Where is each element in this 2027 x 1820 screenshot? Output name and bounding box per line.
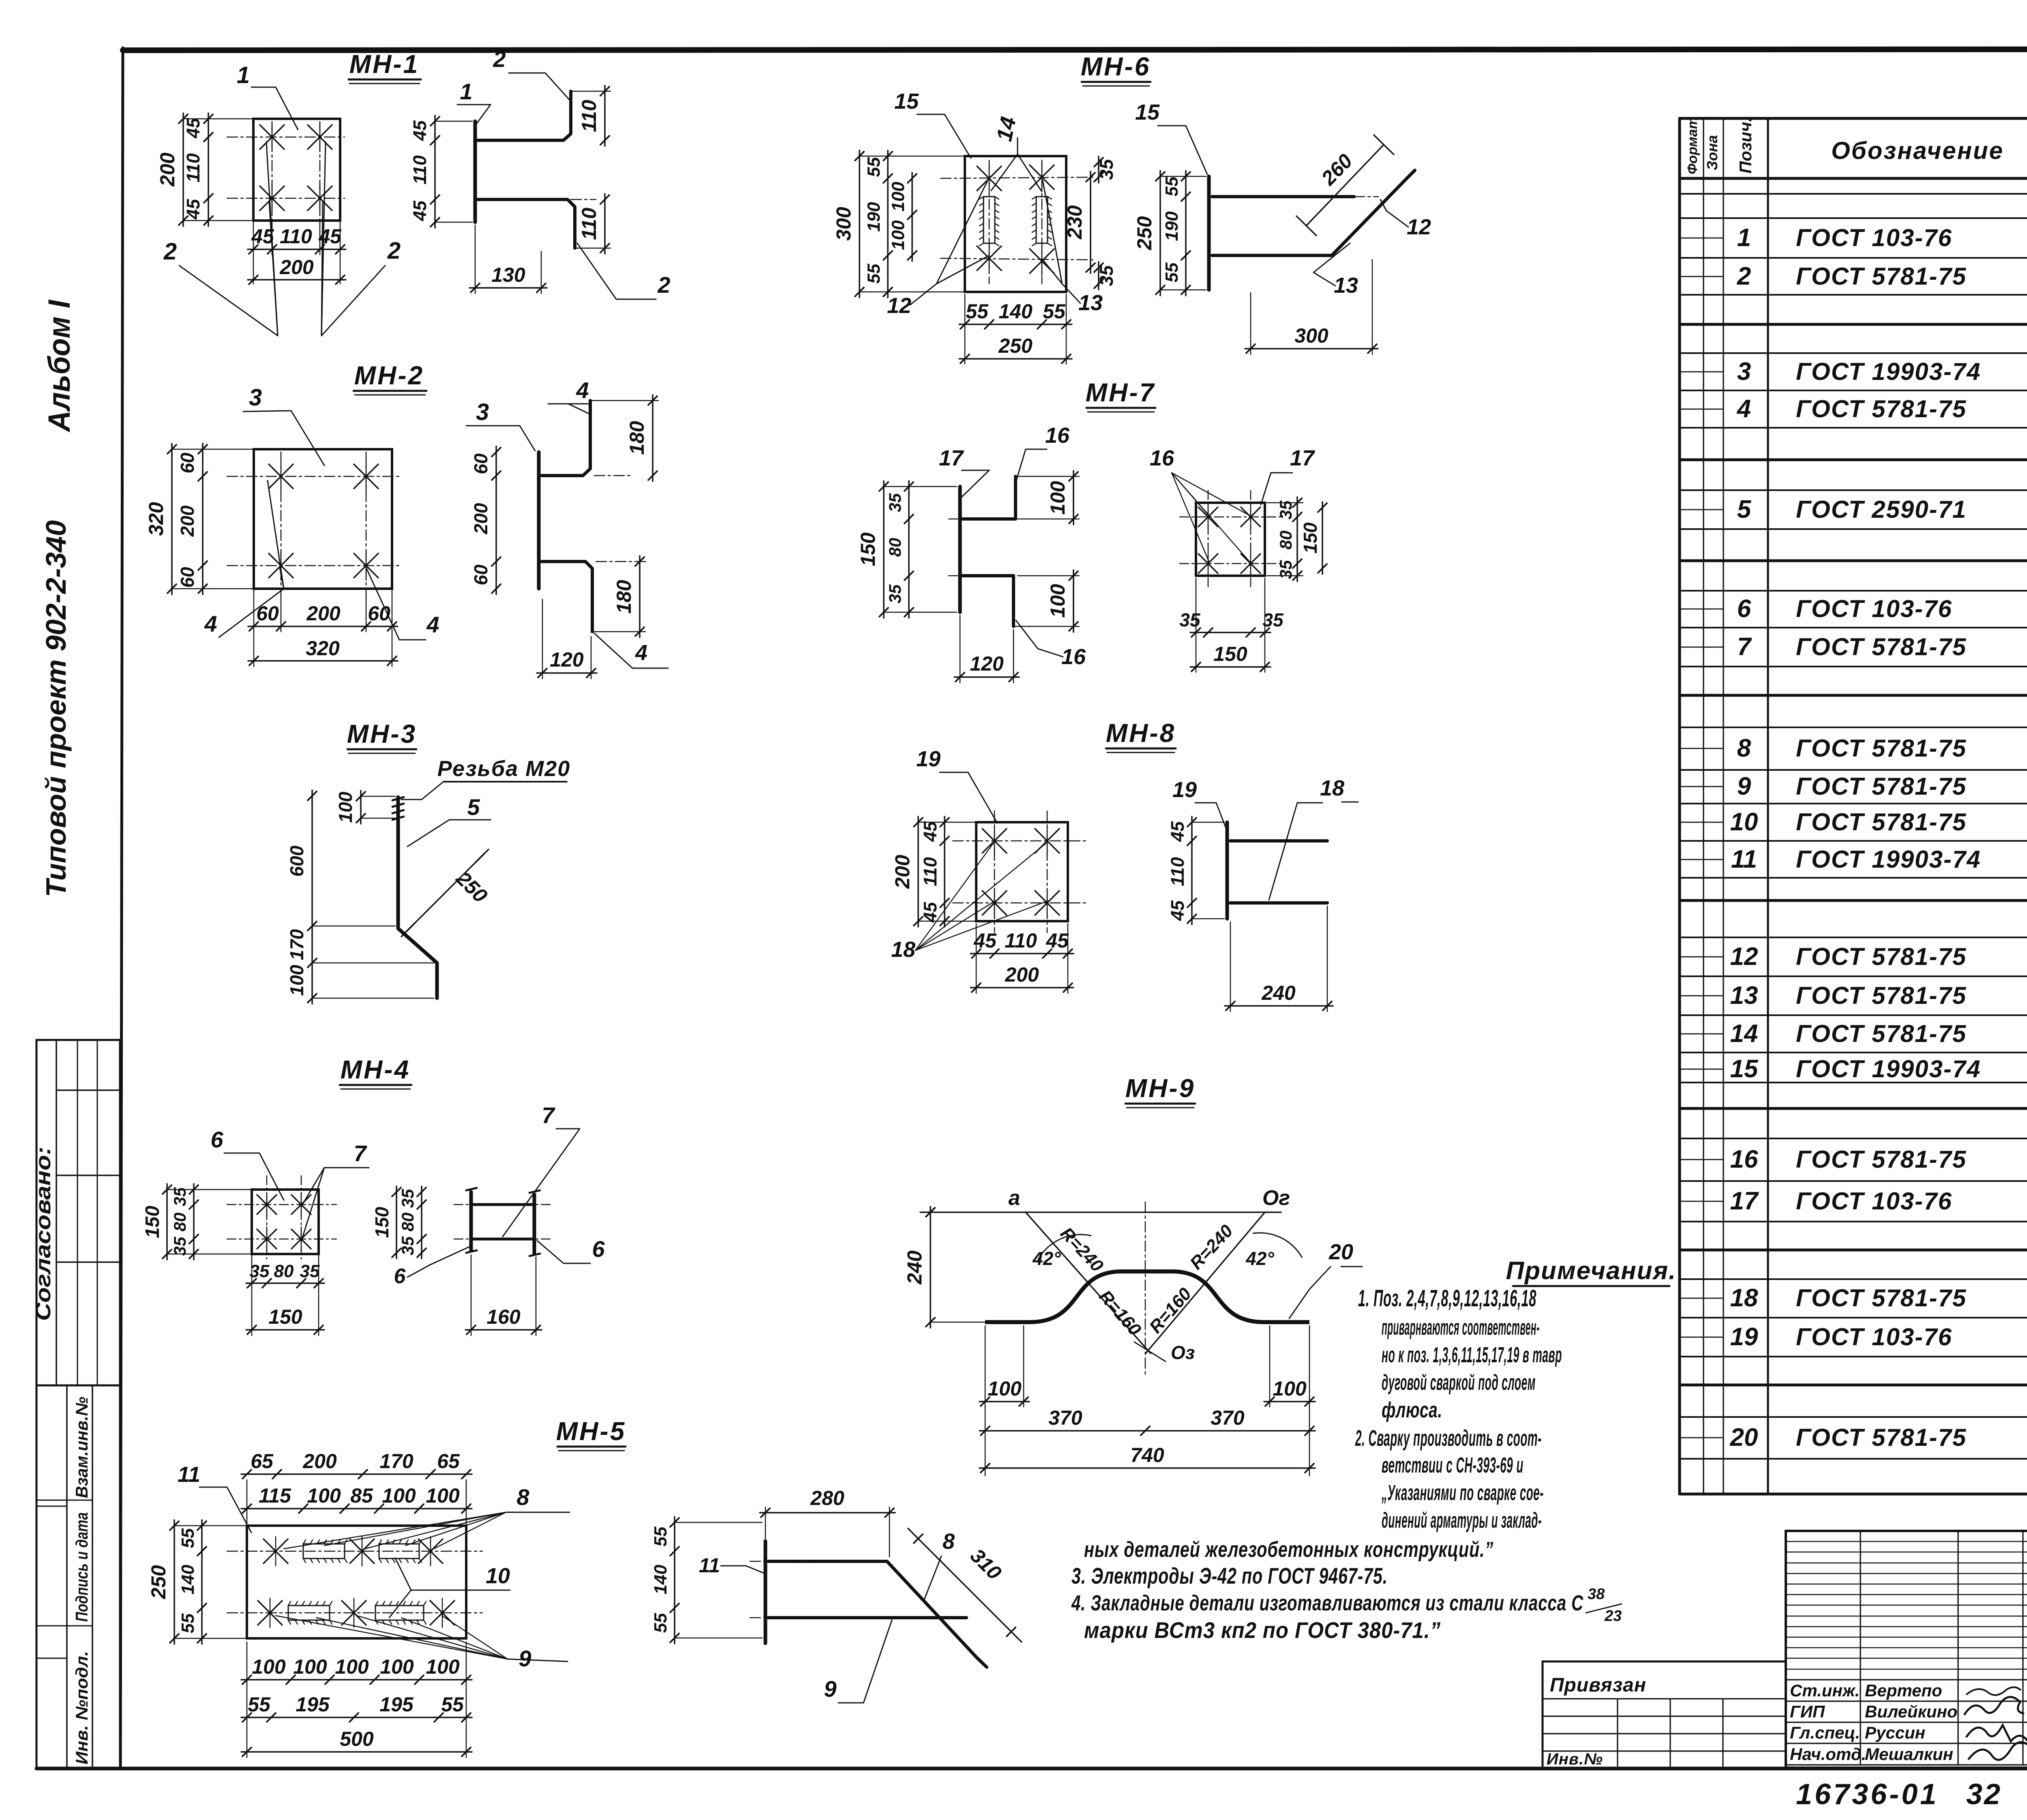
- svg-text:240: 240: [1261, 982, 1296, 1004]
- svg-text:ГОСТ 19903-74: ГОСТ 19903-74: [1796, 846, 1981, 873]
- МН-2 side view plate poz.3 and anchors poz.4: [539, 401, 649, 632]
- svg-text:180: 180: [626, 421, 648, 455]
- frame top border (thick): [123, 49, 2027, 50]
- svg-text:100: 100: [888, 182, 908, 212]
- svg-text:45: 45: [409, 200, 430, 221]
- svg-text:195: 195: [379, 1693, 414, 1716]
- svg-text:ГОСТ 5781-75: ГОСТ 5781-75: [1796, 1284, 1967, 1312]
- svg-text:6: 6: [210, 1127, 223, 1152]
- svg-text:Нач.отд.: Нач.отд.: [1790, 1745, 1866, 1764]
- svg-text:Руссин: Руссин: [1865, 1723, 1925, 1742]
- svg-text:150: 150: [1300, 522, 1321, 553]
- МН-9 angle arcs 42deg: [1032, 1233, 1302, 1269]
- МН-6 side leader poz.15: [1135, 100, 1207, 174]
- svg-text:35: 35: [170, 1237, 189, 1256]
- svg-text:130: 130: [491, 264, 525, 286]
- svg-text:100: 100: [307, 1484, 341, 1507]
- svg-text:ГОСТ 5781-75: ГОСТ 5781-75: [1796, 395, 1967, 422]
- svg-text:11: 11: [1731, 845, 1757, 873]
- МН-9 dims 100: [979, 1326, 1315, 1476]
- svg-text:Позич.: Позич.: [1736, 117, 1755, 174]
- МН-5 leader poz.11: [178, 1462, 251, 1533]
- МН-5 plan top dimension chains: [241, 1450, 472, 1526]
- svg-text:15: 15: [894, 89, 919, 114]
- МН-6 side view: plate poz.15, rod poz.12, bent rod poz.13: [1209, 170, 1415, 290]
- МН-1 side left dimensions: [409, 116, 472, 228]
- table section МН-4: [1680, 565, 2027, 695]
- svg-text:Обозначение: Обозначение: [1831, 137, 2004, 164]
- svg-text:Гл.спец.: Гл.спец.: [1790, 1723, 1860, 1742]
- МН-6 side leader poz.13: [1313, 243, 1358, 298]
- table section МН-9: [1680, 1389, 2027, 1491]
- svg-text:60: 60: [470, 453, 491, 474]
- svg-text:110: 110: [183, 153, 204, 182]
- svg-text:20: 20: [1730, 1423, 1758, 1451]
- svg-text:4: 4: [1736, 395, 1751, 423]
- МН-8 leader poz.18 fan: [891, 843, 1048, 962]
- title block: Привязан box: [1543, 1661, 1786, 1769]
- svg-text:2. Сварку производить в соот-: 2. Сварку производить в соот-: [1355, 1425, 1542, 1451]
- svg-text:110: 110: [578, 100, 600, 132]
- svg-text:1: 1: [1737, 224, 1751, 252]
- svg-text:9: 9: [519, 1646, 531, 1671]
- svg-text:55: 55: [1162, 176, 1182, 196]
- svg-text:ГОСТ 103-76: ГОСТ 103-76: [1796, 595, 1952, 622]
- МН-2 side left dims: [470, 446, 501, 594]
- svg-text:55: 55: [178, 1528, 198, 1548]
- МН-8 title: [1106, 718, 1176, 752]
- svg-text:55: 55: [966, 300, 989, 323]
- МН-8 side view: plate poz.19, straight rods poz.18: [1227, 822, 1327, 919]
- svg-text:Мешалкин: Мешалкин: [1865, 1745, 1953, 1764]
- МН-4 plan: plate poz.6 with anchors poz.7: [227, 1176, 336, 1259]
- svg-text:Ог: Ог: [1262, 1186, 1290, 1210]
- svg-text:12: 12: [1407, 215, 1431, 239]
- svg-text:4: 4: [426, 612, 439, 637]
- svg-text:Резьба М20: Резьба М20: [437, 757, 570, 781]
- МН-1 plan left dimensions 45/110/45, 200: [156, 113, 253, 226]
- svg-text:МН-2: МН-2: [354, 361, 424, 390]
- МН-6 side left dims: [1133, 171, 1206, 296]
- svg-text:МН-3: МН-3: [347, 719, 417, 748]
- svg-text:110: 110: [578, 208, 600, 240]
- svg-text:80: 80: [885, 538, 904, 557]
- МН-1 title: [349, 49, 421, 84]
- svg-text:Типовой проект 902-2-340: Типовой проект 902-2-340: [40, 520, 72, 897]
- svg-text:3: 3: [476, 399, 489, 425]
- svg-text:150: 150: [268, 1306, 302, 1328]
- svg-text:11: 11: [178, 1462, 200, 1487]
- МН-2 plan left dimensions: [145, 444, 254, 594]
- МН-2 plan bottom dimensions: [248, 589, 398, 667]
- table section МН-8: [1680, 1253, 2027, 1385]
- svg-text:200: 200: [177, 505, 198, 537]
- svg-text:марки ВСт3 кп2 по ГОСТ 380-71.: марки ВСт3 кп2 по ГОСТ 380-71.”: [1084, 1617, 1441, 1643]
- svg-text:ГОСТ 5781-75: ГОСТ 5781-75: [1796, 1020, 1967, 1047]
- МН-6 plan right dims: [1063, 156, 1117, 289]
- МН-1 side dim 110 top: [571, 86, 611, 146]
- svg-text:2: 2: [163, 238, 177, 265]
- table section МН-2: [1680, 327, 2027, 458]
- МН-6 plan left dims: [832, 150, 965, 298]
- МН-1 side dim 110 bottom: [575, 194, 611, 254]
- МН-6 side dim 300: [1245, 259, 1378, 354]
- svg-text:65: 65: [437, 1450, 460, 1473]
- МН-5 leader poz.8 with fan: [284, 1484, 570, 1549]
- МН-5 side view: plate poz.11, bent rod poz.8, straight rod poz.9: [750, 1541, 987, 1667]
- svg-text:8: 8: [943, 1529, 955, 1554]
- svg-text:6: 6: [1737, 595, 1751, 623]
- svg-text:ГОСТ 5781-75: ГОСТ 5781-75: [1796, 808, 1967, 836]
- svg-text:17: 17: [939, 446, 964, 470]
- svg-text:16: 16: [1045, 423, 1070, 448]
- МН-7 side leader poz.16 top: [1016, 423, 1070, 480]
- svg-text:ГОСТ 19903-74: ГОСТ 19903-74: [1796, 358, 1981, 385]
- svg-text:140: 140: [651, 1565, 671, 1595]
- svg-text:МН-9: МН-9: [1125, 1074, 1195, 1103]
- svg-text:„Указаниями по сварке сое-: „Указаниями по сварке сое-: [1381, 1481, 1544, 1505]
- МН-2 side leader 3: [466, 399, 535, 451]
- svg-text:Привязан: Привязан: [1550, 1674, 1646, 1696]
- svg-text:7: 7: [542, 1102, 555, 1128]
- МН-2 leader poz.3: [243, 384, 324, 465]
- МН-1 side dim 130: [469, 225, 547, 294]
- svg-text:Оз: Оз: [1171, 1342, 1195, 1363]
- svg-text:10: 10: [1730, 808, 1758, 836]
- МН-4 plan left dims: [142, 1184, 252, 1260]
- svg-text:1: 1: [460, 79, 472, 104]
- svg-text:55: 55: [248, 1693, 271, 1716]
- svg-text:5: 5: [467, 794, 480, 820]
- МН-7 side dim 100 bottom: [1013, 570, 1079, 632]
- svg-text:55: 55: [1043, 300, 1066, 323]
- svg-text:80: 80: [170, 1213, 189, 1232]
- svg-text:2: 2: [1737, 262, 1751, 290]
- МН-4 side leader poz.6 left: [394, 1247, 469, 1288]
- МН-9 centerline: [1145, 1202, 1146, 1374]
- svg-text:45: 45: [1046, 929, 1069, 952]
- svg-text:42°: 42°: [1245, 1248, 1274, 1269]
- svg-text:4: 4: [635, 641, 647, 665]
- svg-text:45: 45: [183, 118, 204, 139]
- svg-text:Вертепо: Вертепо: [1865, 1681, 1942, 1700]
- МН-4 side leader poz.7: [503, 1102, 580, 1237]
- svg-text:ГОСТ 19903-74: ГОСТ 19903-74: [1796, 1055, 1981, 1083]
- svg-text:ГИП: ГИП: [1790, 1702, 1825, 1721]
- МН-1 side leader poz.2 top: [493, 46, 571, 101]
- МН-4 leader poz.7: [301, 1140, 369, 1241]
- МН-9 curved rod poz.20: [985, 1271, 1309, 1322]
- МН-8 side leader poz.18: [1269, 776, 1358, 900]
- svg-text:100: 100: [335, 1655, 369, 1678]
- МН-2 side dim 180 bottom: [592, 556, 645, 637]
- МН-5 title: [556, 1417, 626, 1451]
- МН-4 side dim 160: [465, 1255, 542, 1336]
- title block: signature table: [1786, 1531, 2027, 1768]
- svg-text:МН-6: МН-6: [1081, 52, 1151, 81]
- svg-text:флюса.: флюса.: [1382, 1398, 1442, 1422]
- svg-text:100: 100: [382, 1484, 416, 1507]
- svg-text:190: 190: [864, 202, 884, 232]
- svg-text:1: 1: [237, 62, 250, 88]
- МН-1 plan: plate poz.1 with 4 anchors poz.2: [227, 119, 345, 227]
- svg-text:100: 100: [426, 1484, 460, 1507]
- МН-9 construction diagonals to Оз: [1026, 1212, 1265, 1363]
- inventory number 16736-01 32: [1796, 1778, 2002, 1811]
- МН-5 side dim 280: [760, 1487, 895, 1557]
- МН-9 dim 740: [979, 1444, 1315, 1473]
- svg-text:Инв.№: Инв.№: [1547, 1750, 1603, 1768]
- svg-text:6: 6: [394, 1265, 406, 1288]
- svg-text:300: 300: [1294, 324, 1328, 347]
- svg-text:240: 240: [903, 1250, 926, 1285]
- svg-text:8: 8: [516, 1484, 529, 1510]
- svg-text:150: 150: [1213, 643, 1247, 665]
- svg-text:11: 11: [699, 1554, 720, 1577]
- svg-text:55: 55: [1162, 262, 1182, 282]
- side stamp Инв/Подпись/Взам: [36, 1385, 120, 1769]
- svg-text:110: 110: [920, 857, 941, 886]
- table section МН-1: [1680, 192, 2027, 324]
- svg-text:МН-8: МН-8: [1106, 718, 1176, 748]
- svg-text:17: 17: [1730, 1187, 1759, 1215]
- МН-4 side leader poz.6 right: [537, 1236, 605, 1263]
- МН-8 side dim 240: [1225, 906, 1333, 1012]
- svg-text:18: 18: [1320, 776, 1344, 800]
- svg-text:150: 150: [371, 1207, 392, 1238]
- МН-2 side dim 120: [537, 599, 597, 679]
- rotated text Альбом I: [42, 299, 77, 433]
- svg-text:370: 370: [1211, 1406, 1245, 1429]
- svg-text:150: 150: [857, 532, 879, 566]
- svg-text:320: 320: [145, 502, 167, 536]
- svg-text:140: 140: [999, 300, 1033, 323]
- svg-text:45: 45: [183, 199, 204, 220]
- svg-text:ГОСТ 103-76: ГОСТ 103-76: [1796, 1188, 1952, 1215]
- svg-text:55: 55: [864, 264, 884, 283]
- svg-text:35: 35: [398, 1236, 417, 1255]
- svg-text:55: 55: [864, 157, 884, 177]
- svg-text:Подпись и дата: Подпись и дата: [72, 1512, 91, 1622]
- МН-5 plan: plate poz.11 with anchors poz.8/9 and welds poz.10: [227, 1526, 482, 1638]
- svg-text:Альбом I: Альбом I: [42, 299, 77, 433]
- svg-text:9: 9: [1737, 772, 1751, 800]
- svg-text:55: 55: [178, 1613, 198, 1633]
- svg-text:12: 12: [887, 294, 911, 318]
- МН-2 leader poz.4 left: [204, 480, 284, 637]
- МН-4 leader poz.6: [210, 1127, 284, 1200]
- svg-text:12: 12: [1730, 943, 1758, 971]
- МН-6 plan bottom dims: [959, 294, 1072, 364]
- МН-5 side leader poz.9: [824, 1620, 892, 1703]
- svg-text:1. Поз. 2,4,7,8,9,12,13,16,18: 1. Поз. 2,4,7,8,9,12,13,16,18: [1358, 1285, 1536, 1312]
- МН-1 leader poz.2 right: [321, 142, 401, 336]
- МН-7 plan: plate poz.17 with 4 anchors poz.16: [1180, 491, 1281, 588]
- svg-text:13: 13: [1334, 273, 1358, 298]
- svg-text:85: 85: [350, 1484, 373, 1507]
- svg-text:2: 2: [493, 46, 506, 72]
- svg-text:3: 3: [1737, 358, 1751, 386]
- МН-3 label Резьба М20 with leader: [401, 757, 570, 800]
- svg-text:110: 110: [280, 225, 312, 248]
- svg-text:динений арматуры и заклад-: динений арматуры и заклад-: [1382, 1508, 1542, 1533]
- svg-text:ГОСТ 5781-75: ГОСТ 5781-75: [1796, 943, 1967, 970]
- svg-text:35: 35: [885, 493, 904, 512]
- МН-6 leader poz.12: [887, 182, 989, 318]
- svg-text:35: 35: [250, 1261, 270, 1281]
- svg-text:35: 35: [398, 1189, 417, 1208]
- svg-text:23: 23: [1604, 1608, 1622, 1625]
- rotated text Типовой проект 902-2-340: [40, 520, 72, 897]
- svg-text:55: 55: [651, 1613, 671, 1633]
- svg-text:110: 110: [1167, 857, 1188, 886]
- svg-text:740: 740: [1130, 1444, 1164, 1466]
- МН-6 leader poz.15: [894, 89, 971, 158]
- svg-text:2: 2: [387, 238, 401, 264]
- svg-text:13: 13: [1078, 291, 1103, 315]
- МН-7 side dim 100 top: [1016, 471, 1079, 525]
- svg-text:60: 60: [177, 452, 198, 474]
- svg-text:ГОСТ 5781-75: ГОСТ 5781-75: [1796, 735, 1967, 762]
- svg-text:180: 180: [613, 580, 635, 614]
- svg-text:280: 280: [810, 1487, 844, 1509]
- svg-text:100: 100: [988, 1377, 1022, 1400]
- svg-text:14: 14: [992, 115, 1021, 144]
- svg-text:ГОСТ 103-76: ГОСТ 103-76: [1796, 1323, 1952, 1351]
- МН-3 dim 100 thread: [335, 791, 395, 824]
- svg-text:16: 16: [1730, 1145, 1758, 1173]
- svg-text:100: 100: [888, 220, 908, 250]
- svg-text:a: a: [1009, 1186, 1020, 1210]
- svg-text:Формат: Формат: [1685, 117, 1700, 174]
- svg-text:5: 5: [1737, 495, 1752, 523]
- МН-7 side dim 120: [954, 615, 1019, 683]
- svg-text:35: 35: [885, 584, 904, 603]
- svg-text:55: 55: [651, 1526, 671, 1546]
- МН-5 plan bottom dimension chains: [241, 1642, 472, 1758]
- svg-text:200: 200: [302, 1450, 337, 1473]
- svg-text:ГОСТ 5781-75: ГОСТ 5781-75: [1796, 982, 1967, 1009]
- svg-text:35: 35: [1096, 265, 1117, 286]
- МН-1 side leader poz.1: [457, 79, 491, 126]
- svg-text:16736-01: 16736-01: [1796, 1778, 1939, 1811]
- svg-text:170: 170: [379, 1450, 414, 1473]
- svg-text:18: 18: [891, 937, 915, 962]
- svg-text:Инв. №подл.: Инв. №подл.: [72, 1651, 91, 1764]
- svg-text:19: 19: [916, 747, 941, 771]
- svg-text:170: 170: [286, 929, 307, 960]
- svg-text:Примечания.: Примечания.: [1506, 1257, 1677, 1285]
- svg-text:80: 80: [274, 1261, 294, 1281]
- МН-7 side view: plate poz.17 and bent rods poz.16: [949, 476, 1016, 626]
- svg-text:2: 2: [657, 272, 670, 298]
- svg-text:120: 120: [970, 652, 1004, 675]
- svg-text:20: 20: [1328, 1240, 1353, 1264]
- МН-6 leader poz.14: [991, 115, 1041, 191]
- svg-text:42°: 42°: [1032, 1248, 1061, 1269]
- svg-text:250: 250: [147, 1565, 170, 1599]
- svg-text:115: 115: [259, 1484, 291, 1507]
- МН-9 construction line a-Ог: [920, 1186, 1290, 1217]
- МН-5 leader poz.10: [389, 1558, 510, 1618]
- svg-text:15: 15: [1730, 1055, 1759, 1083]
- svg-text:6: 6: [592, 1236, 605, 1262]
- svg-text:320: 320: [306, 637, 340, 660]
- svg-text:Согласовано:: Согласовано:: [32, 1147, 55, 1321]
- svg-text:200: 200: [279, 256, 314, 279]
- МН-7 plan bottom dims: [1179, 578, 1284, 672]
- МН-8 side leader poz.19: [1172, 778, 1227, 831]
- svg-text:100: 100: [1273, 1377, 1307, 1400]
- МН-2 side dim 180 top: [590, 395, 658, 481]
- svg-text:250: 250: [1133, 216, 1156, 251]
- svg-text:приварнваются соответствен-: приварнваются соответствен-: [1382, 1315, 1540, 1340]
- МН-4 plan bottom dims: [246, 1254, 324, 1336]
- svg-text:19: 19: [1730, 1323, 1758, 1351]
- svg-text:150: 150: [142, 1206, 163, 1238]
- svg-text:13: 13: [1730, 982, 1758, 1010]
- МН-2 leader poz.4 right: [366, 568, 439, 640]
- svg-text:17: 17: [1290, 446, 1316, 470]
- svg-text:ветствии с СН-393-69 и: ветствии с СН-393-69 и: [1382, 1453, 1523, 1477]
- svg-text:200: 200: [891, 855, 914, 889]
- МН-8 plan left dims: [891, 817, 976, 927]
- svg-text:80: 80: [1276, 531, 1295, 550]
- svg-text:32: 32: [1966, 1778, 2002, 1811]
- МН-9 leader poz.20: [1289, 1240, 1362, 1318]
- МН-1 plan bottom dimensions: [248, 221, 346, 284]
- svg-text:9: 9: [824, 1676, 836, 1702]
- МН-5 side leader poz.8: [920, 1529, 955, 1606]
- svg-text:200: 200: [156, 152, 179, 187]
- svg-text:100: 100: [380, 1655, 414, 1678]
- svg-text:100: 100: [286, 965, 307, 996]
- table section МН-6: [1680, 909, 2027, 1111]
- svg-text:100: 100: [1046, 584, 1069, 618]
- svg-text:200: 200: [470, 503, 491, 534]
- svg-text:500: 500: [340, 1728, 374, 1750]
- МН-5 plan left dims: [147, 1520, 247, 1644]
- svg-text:Зона: Зона: [1704, 135, 1721, 170]
- table section МН-7: [1680, 1111, 2027, 1250]
- МН-7 side left dims: [857, 481, 957, 618]
- svg-text:230: 230: [1063, 205, 1086, 240]
- svg-text:45: 45: [1167, 821, 1188, 842]
- svg-text:200: 200: [306, 602, 341, 625]
- svg-text:35: 35: [1262, 609, 1284, 630]
- svg-text:195: 195: [296, 1693, 330, 1716]
- svg-text:60: 60: [470, 564, 491, 585]
- table header labels: [1685, 117, 2027, 177]
- svg-text:100: 100: [426, 1655, 460, 1678]
- svg-text:дуговой сваркой под слоем: дуговой сваркой под слоем: [1382, 1370, 1536, 1395]
- МН-5 leader poz.9 with fan: [276, 1616, 568, 1671]
- МН-5 side dims 55/140/55: [651, 1517, 762, 1644]
- svg-text:4: 4: [204, 611, 217, 637]
- МН-2 plan: plate poz.3 with 4 anchors poz.4: [227, 449, 401, 596]
- svg-text:100: 100: [1046, 481, 1069, 515]
- МН-7 plan right dims: [1267, 497, 1327, 581]
- svg-text:18: 18: [1730, 1284, 1758, 1312]
- МН-7 plan leader poz.16 fan: [1150, 446, 1249, 562]
- svg-text:55: 55: [441, 1693, 464, 1716]
- МН-4 side left dims: [371, 1186, 426, 1258]
- svg-text:140: 140: [178, 1565, 198, 1595]
- МН-4 title: [340, 1055, 411, 1089]
- МН-3 title: [347, 719, 417, 753]
- svg-text:45: 45: [920, 821, 941, 842]
- svg-text:19: 19: [1172, 778, 1197, 802]
